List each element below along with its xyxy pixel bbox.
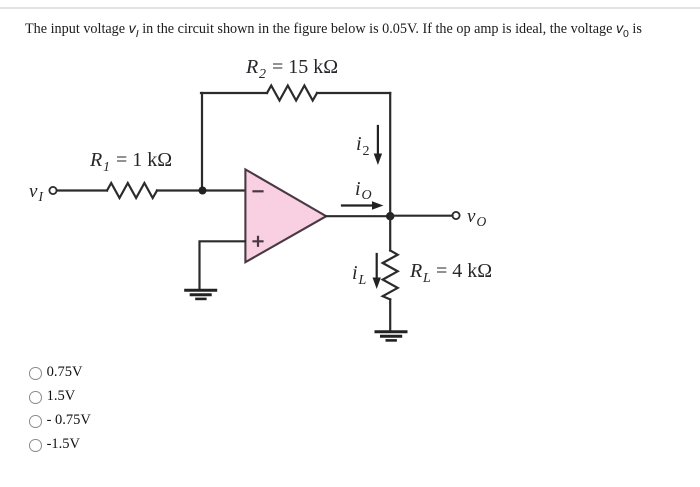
svg-text:L: L — [422, 271, 431, 286]
ground (below RL) — [376, 332, 406, 341]
wire: op-amp output to node — [326, 215, 390, 217]
current arrow iO — [342, 201, 384, 209]
label R1 = 1 kOhm — [89, 149, 172, 175]
radio option D: -1.5V — [29, 436, 80, 453]
question text — [25, 21, 642, 38]
terminal vO (open circle) — [452, 212, 459, 219]
wire: right vertical branch from R2 down to output node — [389, 93, 391, 216]
node: junction of R1, R2 branch and inverting input — [199, 187, 207, 195]
svg-text:i: i — [356, 133, 362, 155]
svg-text:2: 2 — [363, 144, 370, 159]
wire: node down to RL — [389, 216, 391, 250]
op-amp plus sign (non-inverting input) — [254, 237, 263, 246]
svg-text:i: i — [352, 262, 358, 284]
svg-text:v: v — [29, 181, 38, 202]
svg-text:O: O — [362, 188, 372, 203]
radio option B: 1.5V — [29, 388, 75, 405]
wire: non-inverting input to ground — [200, 241, 246, 289]
label i2 — [356, 133, 370, 159]
label iO — [355, 178, 372, 203]
op-amp U1 — [245, 169, 326, 262]
resistor R1 — [107, 183, 157, 198]
node: output node at vertical branch — [386, 212, 394, 220]
svg-text:i: i — [355, 178, 361, 200]
terminal vI (open circle) — [49, 187, 56, 194]
svg-text:1: 1 — [103, 160, 110, 175]
svg-text:R: R — [89, 149, 102, 171]
ground (op-amp + input) — [186, 290, 216, 299]
resistor R2 — [267, 86, 317, 101]
label R2 = 15 kOhm — [245, 56, 338, 82]
wire: RL to ground — [389, 299, 391, 331]
wire: top horizontal right segment from R2 to right branch corner — [317, 92, 390, 94]
radio option C: - 0.75V — [29, 412, 91, 429]
wire: output node to vO terminal — [390, 215, 452, 217]
label vO — [467, 206, 487, 229]
top divider line — [0, 7, 700, 9]
wire: top horizontal left segment to R2 — [201, 92, 267, 94]
label iL — [352, 262, 367, 288]
resistor RL — [383, 251, 398, 300]
svg-text:L: L — [358, 273, 367, 288]
op-amp minus sign (inverting input) — [254, 190, 263, 192]
wire: vI terminal to R1 — [57, 189, 107, 191]
radio option A: 0.75V — [29, 364, 82, 381]
wire: top-left vertical from feedback branch down to inverting node — [201, 93, 203, 191]
svg-text:= 4 kΩ: = 4 kΩ — [436, 260, 492, 282]
svg-text:R: R — [245, 56, 258, 78]
wire: R1 to inverting input of op-amp — [157, 189, 245, 191]
svg-text:v: v — [467, 206, 476, 227]
label vI — [29, 181, 45, 204]
svg-text:2: 2 — [259, 67, 266, 82]
svg-text:I: I — [38, 189, 45, 204]
svg-text:O: O — [477, 214, 487, 229]
current arrow i2 — [374, 126, 382, 165]
svg-text:= 1 kΩ: = 1 kΩ — [116, 149, 172, 171]
current arrow iL — [373, 254, 381, 289]
label RL = 4 kOhm — [409, 260, 492, 286]
svg-text:= 15 kΩ: = 15 kΩ — [272, 56, 338, 78]
svg-text:R: R — [409, 260, 422, 282]
